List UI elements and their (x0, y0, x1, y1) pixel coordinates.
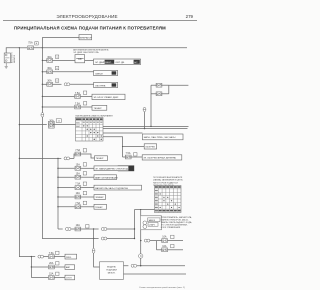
svg-text:30А: 30А (47, 56, 52, 59)
svg-text:БАТАРЕЯ: БАТАРЕЯ (13, 54, 16, 63)
svg-text:7.5А: 7.5А (75, 102, 80, 105)
svg-text:ОБОГРЕВ: ОБОГРЕВ (145, 147, 155, 149)
svg-text:СТОП: СТОП (66, 278, 72, 280)
svg-text:ЭЛ. БЛОК УПРАВЛ. ДВИГ.: ЭЛ. БЛОК УПРАВЛ. ДВИГ. (94, 96, 120, 99)
svg-text:7.5А: 7.5А (75, 183, 80, 186)
svg-text:(ЗАМКА) ЗАЖИГАНИЯ И ЦЕПИ,: (ЗАМКА) ЗАЖИГАНИЯ И ЦЕПИ, (153, 179, 183, 182)
svg-text:15А: 15А (76, 172, 81, 175)
svg-text:7.5А: 7.5А (75, 92, 80, 95)
svg-text:ВЫКЛЮЧАТЕЛЬ (ЗАМОК) ЗАЖИГАНИЯ: ВЫКЛЮЧАТЕЛЬ (ЗАМОК) ЗАЖИГАНИЯ (76, 115, 114, 118)
svg-text:ЗАМОК: ЗАМОК (148, 219, 155, 222)
svg-text:10А: 10А (162, 236, 167, 239)
svg-text:ЗВУК.: ЗВУК. (66, 257, 72, 259)
svg-text:АМ2: АМ2 (76, 125, 80, 128)
svg-text:А/С: А/С (134, 61, 138, 64)
svg-text:МАГНИТОЛА, ЧАСЫ, ПОДСВЕТКА: МАГНИТОЛА, ЧАСЫ, ПОДСВЕТКА (95, 187, 128, 190)
svg-text:АВР.: АВР. (66, 266, 71, 269)
svg-text:ТЮНЕР: ТЮНЕР (94, 108, 103, 110)
svg-text:ВЕНТ.: ВЕНТ. (105, 62, 112, 64)
svg-text:279: 279 (186, 14, 194, 19)
svg-text:Схема электрических цепей пита: Схема электрических цепей питания (лист … (139, 286, 185, 289)
svg-text:10А: 10А (76, 192, 81, 195)
svg-text:7.5А: 7.5А (126, 152, 131, 155)
svg-text:ЭЛЕКТРООБОРУДОВАНИЕ: ЭЛЕКТРООБОРУДОВАНИЕ (56, 14, 117, 19)
svg-text:ПОЛОЖЕНИЯ ВЫКЛЮЧАТЕЛЯ: ПОЛОЖЕНИЯ ВЫКЛЮЧАТЕЛЯ (153, 176, 183, 179)
svg-text:7.5А: 7.5А (75, 202, 80, 205)
svg-text:АМ1: АМ1 (76, 122, 80, 125)
svg-text:АККУМУЛЯТ.: АККУМУЛЯТ. (10, 51, 13, 63)
svg-text:ГЕНЕРАТОР: ГЕНЕРАТОР (79, 37, 92, 40)
svg-text:МАГН., ПАН. ПРИБ., ЭБУ, ЧАСЫ: МАГН., ПАН. ПРИБ., ЭБУ, ЧАСЫ (144, 136, 176, 139)
svg-text:15А: 15А (76, 163, 81, 166)
svg-text:ЛАМПЫ СВЕТА ЗАДНЕГО ХОДА,: ЛАМПЫ СВЕТА ЗАДНЕГО ХОДА, (161, 221, 193, 224)
svg-text:ТЮНЕР: ТЮНЕР (95, 207, 103, 209)
svg-text:ПОДУШКИ: ПОДУШКИ (106, 269, 117, 271)
svg-text:75А: 75А (28, 41, 33, 44)
svg-text:МОДУЛЬ: МОДУЛЬ (107, 266, 116, 268)
svg-text:ЭЛ. ОБОГРЕВ ЗЕРКАЛ, АНТЕННА: ЭЛ. ОБОГРЕВ ЗЕРКАЛ, АНТЕННА (143, 157, 176, 160)
svg-text:30А: 30А (47, 80, 52, 83)
svg-text:7.5А: 7.5А (49, 252, 54, 255)
svg-text:БЛОК УПРАВЛЕНИЯ: БЛОК УПРАВЛЕНИЯ (161, 226, 181, 229)
svg-text:ОХЛ. ДВ.: ОХЛ. ДВ. (115, 62, 125, 64)
svg-text:ПРИНЦИПИАЛЬНАЯ СХЕМА ПОДАЧИ ПИ: ПРИНЦИПИАЛЬНАЯ СХЕМА ПОДАЧИ ПИТАНИЯ К ПО… (14, 25, 166, 30)
svg-text:ЭЛ. ДВИГ.: ЭЛ. ДВИГ. (95, 62, 106, 64)
svg-text:СТАРТ.: СТАРТ. (149, 223, 156, 226)
svg-text:БЕЗОП.: БЕЗОП. (108, 272, 116, 274)
svg-text:15А: 15А (49, 273, 54, 276)
svg-text:ОБОГРЕВ: ОБОГРЕВ (95, 85, 106, 87)
svg-text:30А: 30А (49, 120, 54, 123)
svg-text:НА КОТОРЫЕ ПОДАЕТСЯ: НА КОТОРЫЕ ПОДАЕТСЯ (153, 181, 178, 184)
svg-text:7.5А: 7.5А (75, 149, 80, 152)
svg-text:ЗУММЕР: ЗУММЕР (95, 197, 104, 199)
svg-text:20А: 20А (49, 262, 54, 265)
svg-text:10А: 10А (76, 224, 81, 227)
svg-text:ПРИКУРИВАТЕЛЬ, МАГНИТОЛА,: ПРИКУРИВАТЕЛЬ, МАГНИТОЛА, (161, 216, 192, 219)
svg-text:АВАР. СИГНАЛИЗАЦИЯ: АВАР. СИГНАЛИЗАЦИЯ (95, 176, 118, 179)
svg-text:СВЕЧИ: СВЕЧИ (95, 73, 103, 75)
svg-text:ЭЛ. ДВИГ. ВЕНТИЛЯТОРА: ЭЛ. ДВИГ. ВЕНТИЛЯТОРА (73, 51, 99, 54)
svg-text:10А: 10А (162, 245, 167, 248)
svg-text:ТЮНЕР: ТЮНЕР (96, 158, 104, 160)
svg-text:ПАНЕЛЬ ПРИБОРОВ, ЧАСЫ,: ПАНЕЛЬ ПРИБОРОВ, ЧАСЫ, (161, 219, 189, 222)
svg-text:30А: 30А (47, 67, 52, 70)
svg-text:ЭЛ. ЗАМКИ ДВЕРЕЙ, СТЕКЛОПОД.: ЭЛ. ЗАМКИ ДВЕРЕЙ, СТЕКЛОПОД. (95, 168, 129, 171)
